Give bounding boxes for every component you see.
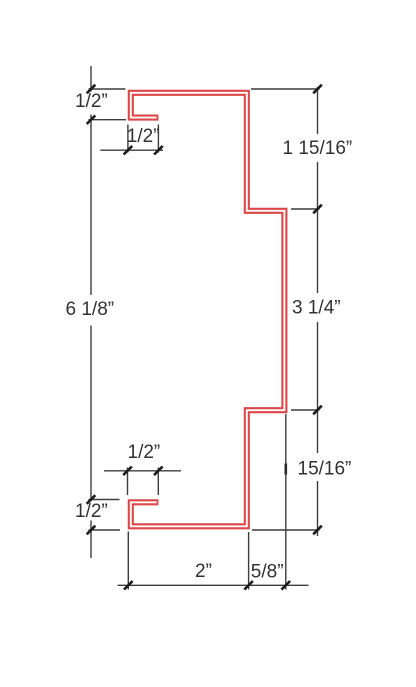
tick right dim at y=410: [313, 406, 322, 415]
extension line right jog1 (y=209): [291, 208, 320, 210]
dimension line small bottom horizontal (y=470.8): [104, 470, 181, 472]
svg-text:1 15/16”: 1 15/16”: [283, 138, 353, 159]
dimension line left vertical segment 2: [90, 115, 92, 296]
svg-text:1/2”: 1/2”: [127, 126, 160, 147]
tick right dim at y=89: [313, 85, 322, 94]
dimension line right vertical segment 4: [317, 481, 319, 536]
extension line bottom dim left (x=128.3): [127, 532, 129, 590]
extension line left bottom (y=530): [89, 529, 121, 531]
extension line bottom dim right (x=285.8): [285, 414, 287, 590]
dimension line small top horizontal (y=150.2): [100, 149, 163, 151]
tick bottom dim middle: [244, 581, 253, 590]
dimension line left vertical segment 3: [90, 326, 92, 502]
svg-text:1/2”: 1/2”: [128, 442, 161, 463]
svg-text:1/2”: 1/2”: [75, 91, 108, 112]
tick left dim at y=119.7: [87, 115, 96, 124]
tick right dim at y=209: [313, 205, 322, 214]
svg-text:15/16”: 15/16”: [298, 459, 352, 480]
tick small bottom dim right: [154, 467, 163, 476]
tick small bottom dim left: [123, 467, 132, 476]
svg-text:5/8”: 5/8”: [251, 562, 284, 583]
extension line small top dim right (x=158.4): [157, 125, 159, 153]
extension line small bottom dim right (x=158.3): [157, 468, 159, 496]
extension line bottom dim middle (x=248.6): [248, 532, 250, 590]
extension line small top dim left (x=127.9): [127, 125, 129, 153]
tick right dim at y=530: [313, 526, 322, 535]
tick small top dim left: [124, 146, 133, 155]
extension line left lower hook top (y=499.5): [89, 499, 120, 501]
dimension line right vertical segment 3: [317, 322, 319, 453]
profile outline white core stroke: [131, 93, 285, 527]
svg-text:6 1/8”: 6 1/8”: [66, 299, 115, 320]
tick left dim at y=89: [87, 85, 96, 94]
svg-text:2”: 2”: [195, 561, 212, 582]
extension line top-left (y=89): [89, 88, 126, 90]
svg-text:3 1/4”: 3 1/4”: [292, 298, 341, 319]
tick left dim at y=499.5: [87, 495, 96, 504]
extension line top-right (y=89): [251, 88, 320, 90]
dimension line right vertical segment 2: [317, 162, 319, 293]
tick bottom dim left: [124, 581, 133, 590]
dimension line bottom horizontal (y=585.3): [118, 584, 309, 586]
dimension line right vertical segment 1: [317, 87, 319, 134]
extension line left hook bottom (y=119.7): [89, 119, 127, 121]
profile outline red outer stroke: [131, 93, 285, 527]
dimension line left vertical segment 4: [90, 521, 92, 559]
tick left dim at y=530: [87, 526, 96, 535]
extension line thick dash on x=285.8: [284, 464, 287, 475]
extension line right jog2 (y=410): [291, 409, 320, 411]
svg-text:1/2”: 1/2”: [75, 501, 108, 522]
extension line bottom-right (y=530): [252, 529, 320, 531]
extension line small bottom dim left (x=127.5): [127, 468, 129, 496]
dimension line left vertical segment 1: [90, 66, 92, 92]
tick bottom dim right: [282, 581, 291, 590]
tick small top dim right: [154, 146, 163, 155]
